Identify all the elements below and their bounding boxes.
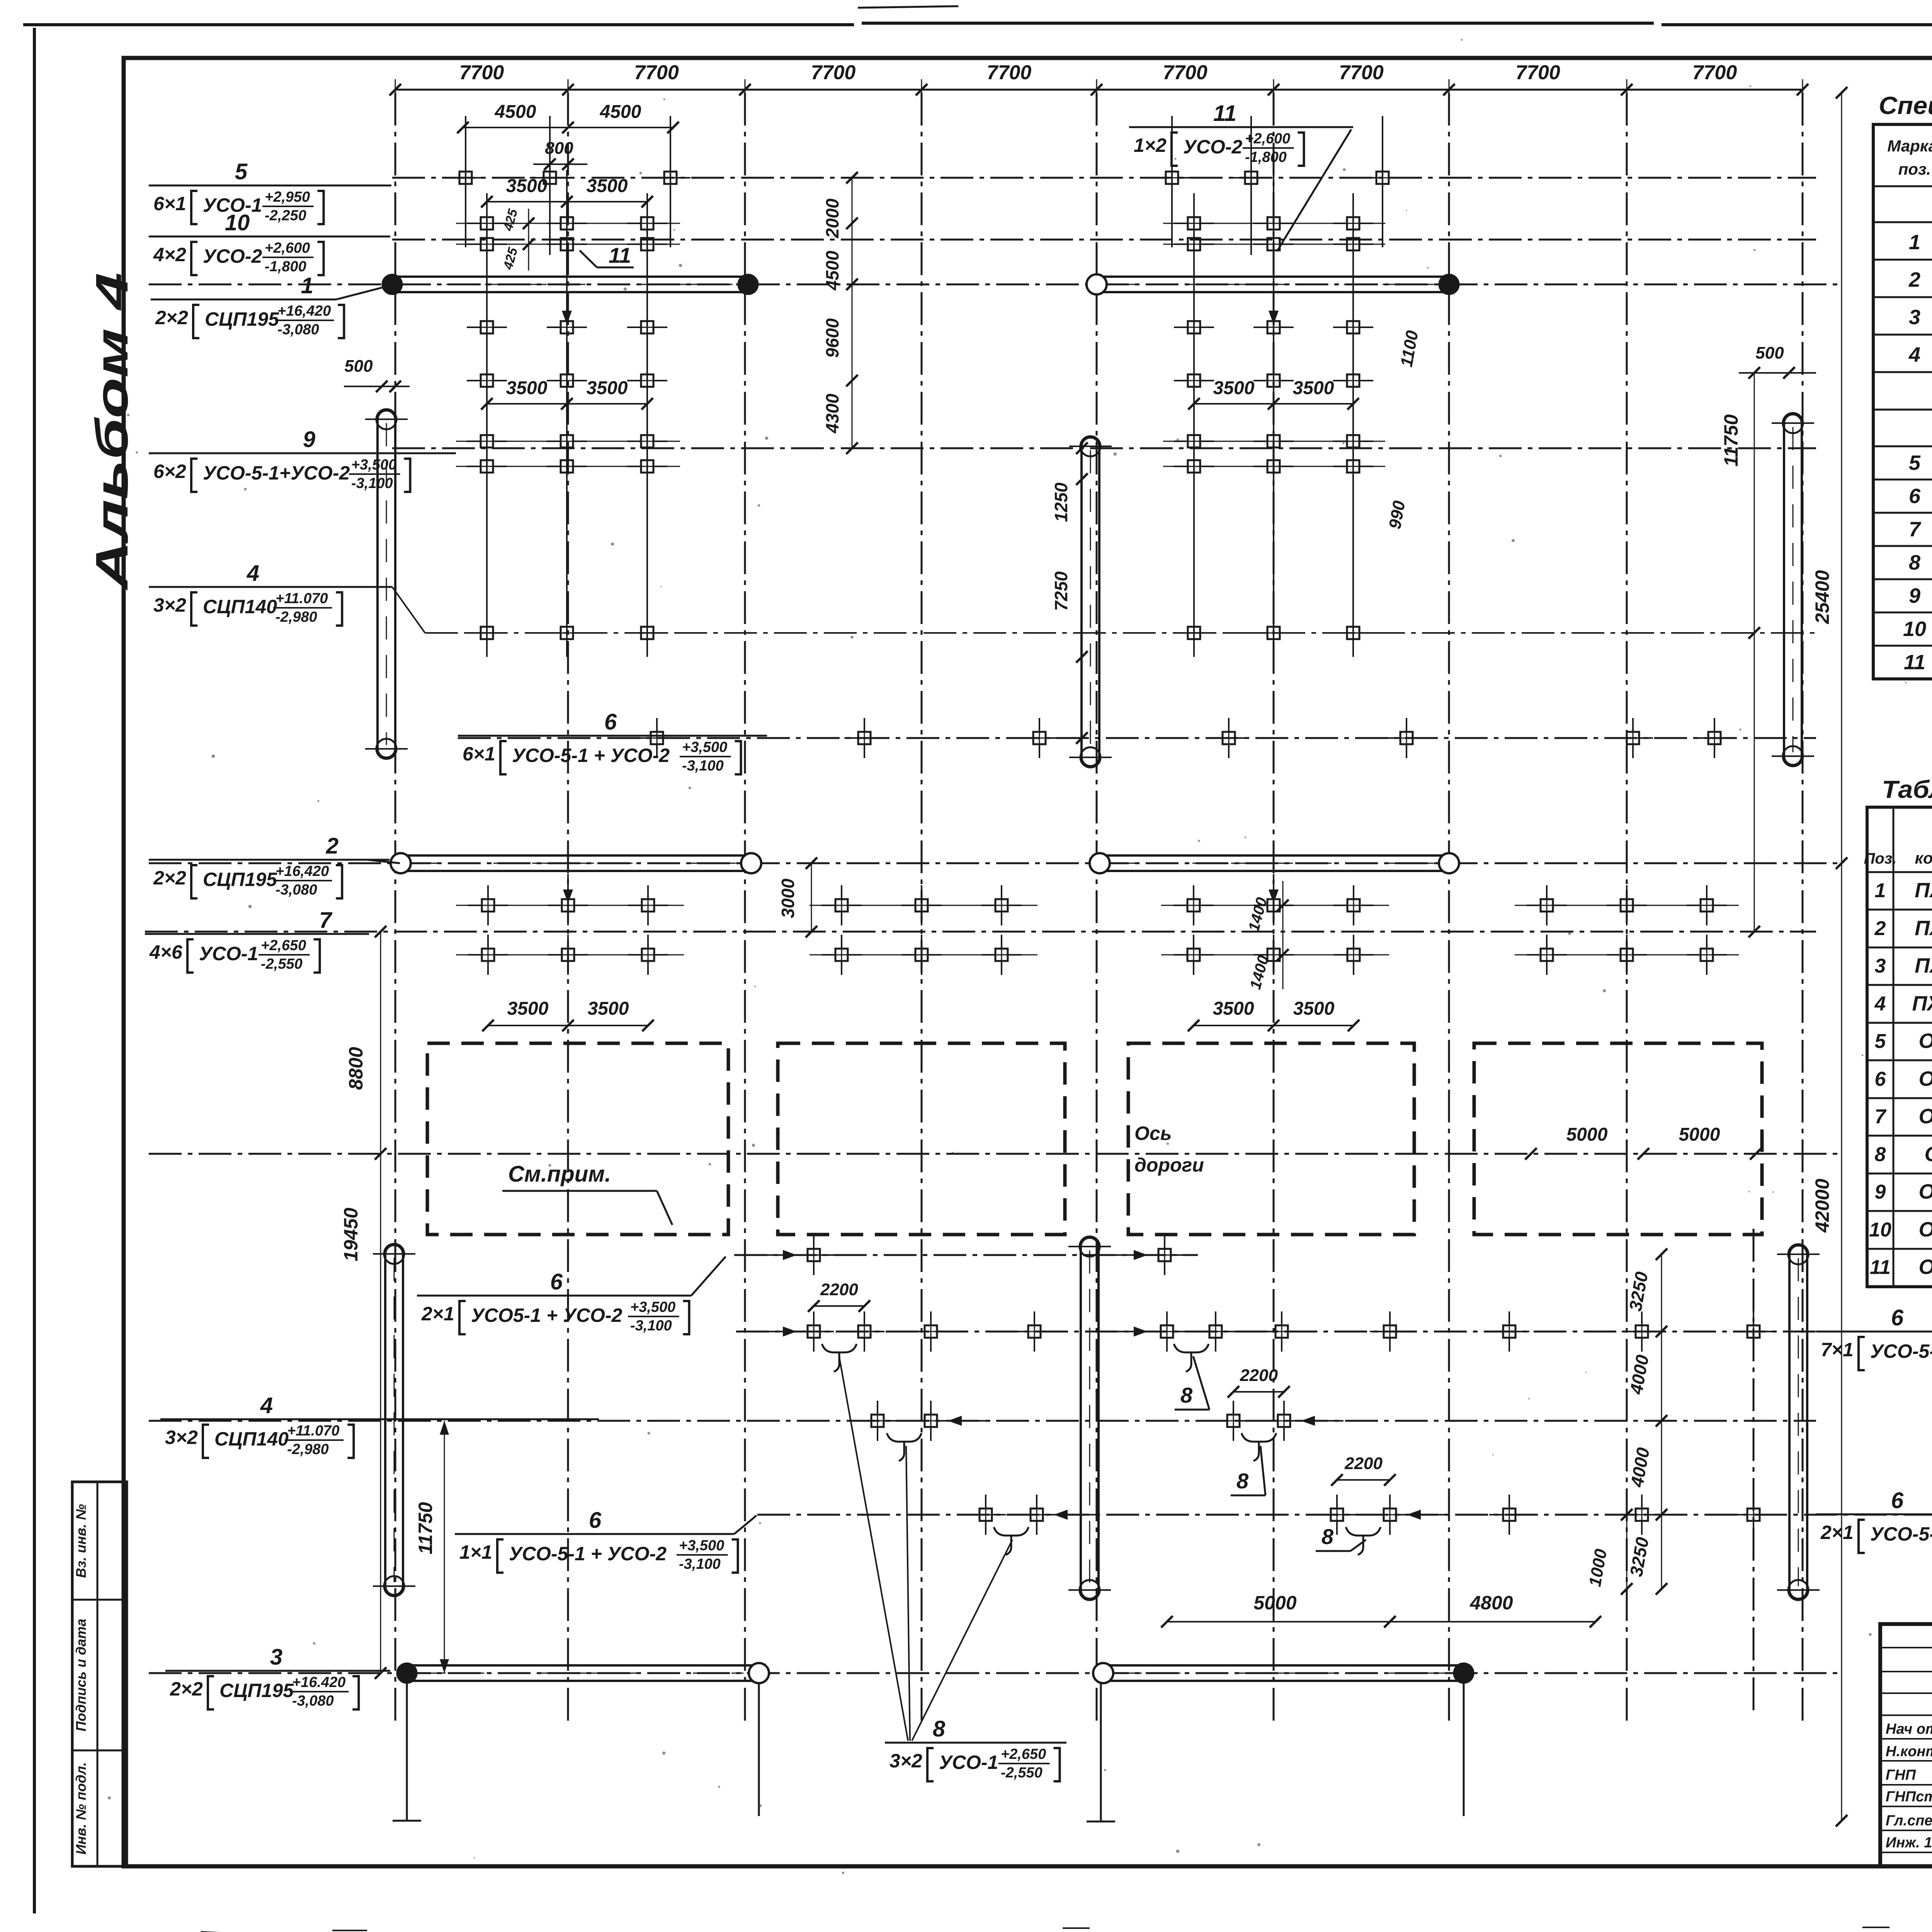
svg-text:6: 6 bbox=[1891, 1305, 1904, 1330]
svg-text:10: 10 bbox=[225, 210, 250, 235]
svg-text:10: 10 bbox=[1903, 617, 1926, 641]
svg-text:3500: 3500 bbox=[506, 176, 548, 196]
svg-text:2: 2 bbox=[1874, 917, 1886, 940]
svg-text:11: 11 bbox=[1904, 651, 1925, 674]
svg-text:3000: 3000 bbox=[778, 878, 798, 918]
svg-text:42000: 42000 bbox=[1811, 1179, 1833, 1233]
row 3677 arrows bbox=[948, 1416, 962, 1426]
row 6b-right axis bbox=[736, 1331, 1932, 1333]
svg-text:8: 8 bbox=[1909, 551, 1920, 574]
svg-text:ГНП: ГНП bbox=[1886, 1767, 1916, 1783]
svg-text:9: 9 bbox=[1909, 584, 1920, 607]
svg-text:поз.: поз. bbox=[1898, 160, 1931, 178]
svg-text:конструкций: конструкций bbox=[1915, 849, 1932, 867]
row 10 axis bbox=[392, 239, 1816, 241]
svg-text:Нач отд: Нач отд bbox=[1886, 1721, 1932, 1737]
svg-text:УСО-2: УСО-2 bbox=[1183, 136, 1243, 158]
svg-text:ПЖ-220 Я3: ПЖ-220 Я3 bbox=[1915, 879, 1932, 902]
svg-text:2200: 2200 bbox=[1240, 1366, 1278, 1385]
axis 7 lower tail bbox=[1463, 1673, 1465, 1816]
svg-text:8: 8 bbox=[1180, 1383, 1193, 1407]
label row6b-right bbox=[1816, 1331, 1932, 1333]
svg-text:ОТ-220-17: ОТ-220-17 bbox=[1918, 1218, 1932, 1241]
svg-text:7250: 7250 bbox=[1051, 571, 1071, 611]
svg-text:ПЖ-220 Я1: ПЖ-220 Я1 bbox=[1915, 917, 1932, 940]
axis 1 lower tail bbox=[406, 1673, 408, 1821]
left margin table bbox=[72, 1482, 127, 1866]
svg-text:7: 7 bbox=[319, 908, 333, 933]
table2 grid bbox=[1867, 807, 1932, 1287]
top dimension chain 7700 bbox=[395, 89, 1803, 91]
chain lower right bbox=[1661, 1254, 1662, 1589]
title block frame bbox=[1880, 1624, 1932, 1866]
row 2 axis bbox=[149, 862, 1842, 864]
axis expansion column bbox=[1753, 1229, 1755, 1712]
label row7 bbox=[145, 933, 369, 935]
svg-text:+2,950: +2,950 bbox=[265, 189, 310, 205]
label row2 leader bbox=[367, 860, 400, 863]
svg-text:СЦП195: СЦП195 bbox=[203, 869, 277, 890]
svg-text:5000: 5000 bbox=[1566, 1124, 1608, 1145]
svg-text:7700: 7700 bbox=[459, 61, 504, 84]
dimension 3500 3500 upper-left bbox=[487, 201, 647, 202]
svg-text:ГНПстр.: ГНПстр. bbox=[1886, 1789, 1932, 1805]
svg-text:4500: 4500 bbox=[495, 102, 536, 122]
svg-text:УСО-5-1+УСО-2: УСО-5-1+УСО-2 bbox=[1870, 1523, 1932, 1545]
row 6c axis bbox=[757, 1514, 1932, 1516]
label 11 top bbox=[1129, 126, 1353, 128]
svg-text:7×1: 7×1 bbox=[1821, 1339, 1854, 1361]
label row1 leader bbox=[336, 285, 391, 299]
axis 5 lower tail bbox=[1100, 1673, 1102, 1821]
svg-text:-3,080: -3,080 bbox=[277, 321, 319, 338]
svg-text:ПЖ-220 Я2: ПЖ-220 Я2 bbox=[1915, 954, 1932, 977]
svg-text:5: 5 bbox=[235, 159, 248, 184]
svg-text:Инж. 1к.: Инж. 1к. bbox=[1886, 1835, 1932, 1851]
dimension 3500 3500 row7-right bbox=[1194, 1025, 1354, 1026]
svg-text:5: 5 bbox=[1875, 1030, 1886, 1053]
svg-text:9: 9 bbox=[1875, 1181, 1886, 1203]
label row5 bbox=[149, 185, 391, 187]
svg-text:+2,650: +2,650 bbox=[261, 937, 306, 954]
label row4 upper bbox=[149, 586, 392, 588]
chain A line bbox=[852, 178, 853, 448]
svg-text:3500: 3500 bbox=[1213, 378, 1255, 398]
svg-text:-3,100: -3,100 bbox=[682, 758, 724, 774]
svg-text:-1,800: -1,800 bbox=[1245, 149, 1287, 165]
dimension 425 425 bbox=[528, 209, 529, 270]
marker columns left bbox=[486, 193, 488, 657]
svg-text:8: 8 bbox=[1875, 1143, 1886, 1166]
svg-text:3500: 3500 bbox=[1293, 378, 1334, 398]
svg-text:Ось: Ось bbox=[1134, 1122, 1172, 1144]
svg-text:4: 4 bbox=[1908, 343, 1920, 366]
portal column lower-mid bbox=[1081, 1238, 1099, 1599]
svg-text:ОТ-220-12: ОТ-220-12 bbox=[1918, 1105, 1932, 1128]
svg-text:3×2: 3×2 bbox=[153, 594, 186, 616]
dimension 5000 5000 road bbox=[1525, 1148, 1537, 1160]
row 9 axis bbox=[392, 447, 1816, 449]
svg-text:3500: 3500 bbox=[587, 176, 628, 196]
label row9 bbox=[149, 452, 456, 454]
svg-text:800: 800 bbox=[545, 139, 573, 158]
svg-text:Таблица закреплений конструкци: Таблица закреплений конструкций в грунте bbox=[1882, 776, 1932, 803]
svg-text:+2,650: +2,650 bbox=[1001, 1746, 1046, 1762]
page top border line bbox=[23, 23, 854, 26]
bracket row3920 b bbox=[1346, 1527, 1381, 1555]
svg-text:-2,250: -2,250 bbox=[265, 207, 306, 224]
svg-text:+3,500: +3,500 bbox=[682, 739, 727, 755]
axis column line 6 bbox=[1273, 93, 1275, 1723]
svg-text:6: 6 bbox=[550, 1269, 563, 1294]
chain left 19450 bbox=[380, 1154, 381, 1673]
svg-text:3: 3 bbox=[270, 1645, 282, 1670]
svg-text:+16.420: +16.420 bbox=[292, 1674, 345, 1690]
svg-text:СЦП195: СЦП195 bbox=[205, 308, 279, 330]
label row3 bbox=[165, 1670, 390, 1672]
svg-text:25400: 25400 bbox=[1811, 570, 1833, 624]
svg-text:2200: 2200 bbox=[1344, 1454, 1383, 1473]
svg-text:7700: 7700 bbox=[1692, 61, 1737, 84]
svg-text:8: 8 bbox=[1321, 1524, 1334, 1549]
svg-text:Марка,: Марка, bbox=[1887, 137, 1932, 155]
svg-text:+2,600: +2,600 bbox=[265, 240, 310, 256]
dimension 3500 3500 row7-left bbox=[488, 1025, 648, 1026]
svg-text:-3,080: -3,080 bbox=[276, 882, 317, 898]
svg-text:1×1: 1×1 bbox=[459, 1541, 492, 1563]
svg-text:ОТ-220-18: ОТ-220-18 bbox=[1918, 1255, 1932, 1279]
row 4 axis lower bbox=[149, 1420, 1816, 1422]
svg-text:2: 2 bbox=[326, 833, 338, 859]
foundation markers bbox=[446, 158, 486, 198]
axis 3 lower tail bbox=[758, 1673, 760, 1816]
dimension 500 right bbox=[1739, 372, 1816, 374]
svg-text:Инв. № подл.: Инв. № подл. bbox=[73, 1762, 89, 1854]
label row2 bbox=[149, 859, 389, 861]
svg-text:10: 10 bbox=[1869, 1219, 1891, 1241]
axis column line 1 bbox=[395, 93, 396, 1723]
dashed area 3 bbox=[1128, 1043, 1414, 1235]
portal column upper-mid bbox=[1082, 437, 1099, 766]
svg-text:Спецификация к схеме расположе: Спецификация к схеме расположения элемен… bbox=[1879, 92, 1932, 119]
row 4 axis upper bbox=[425, 632, 1816, 634]
svg-text:6×1: 6×1 bbox=[463, 743, 495, 765]
svg-text:3: 3 bbox=[1909, 306, 1920, 329]
svg-text:+11.070: +11.070 bbox=[276, 590, 328, 607]
svg-text:УСО-2: УСО-2 bbox=[203, 245, 262, 267]
row 1 axis bbox=[149, 284, 1842, 286]
svg-text:4500: 4500 bbox=[600, 102, 641, 122]
svg-text:+3,500: +3,500 bbox=[630, 1299, 675, 1315]
svg-text:5000: 5000 bbox=[1679, 1124, 1720, 1145]
svg-text:4800: 4800 bbox=[1469, 1592, 1513, 1614]
axis column line 8 bbox=[1626, 93, 1628, 1723]
svg-text:1250: 1250 bbox=[1051, 482, 1071, 522]
svg-text:7700: 7700 bbox=[634, 61, 679, 84]
svg-text:ОТ-220-25: ОТ-220-25 bbox=[1918, 1067, 1932, 1090]
svg-text:СЦП140: СЦП140 bbox=[203, 596, 277, 617]
row 5 axis bbox=[392, 177, 1816, 179]
portal column upper-left bbox=[378, 410, 395, 758]
svg-text:-3,100: -3,100 bbox=[679, 1556, 721, 1572]
svg-text:ОТ-220-27: ОТ-220-27 bbox=[1918, 1029, 1932, 1053]
svg-text:УСО-5-1 + УСО-2: УСО-5-1 + УСО-2 bbox=[512, 745, 670, 766]
label 8 leaders bbox=[839, 1357, 908, 1741]
svg-text:5: 5 bbox=[1909, 451, 1921, 474]
svg-text:УСО5-1 + УСО-2: УСО5-1 + УСО-2 bbox=[471, 1304, 622, 1326]
bracket row3446 b bbox=[1174, 1344, 1209, 1372]
row 3 axis bbox=[149, 1672, 1842, 1674]
svg-text:4: 4 bbox=[260, 1393, 273, 1418]
svg-text:+16,420: +16,420 bbox=[276, 863, 329, 879]
row 10 marker lines bbox=[456, 223, 680, 224]
portal bar row3 left bbox=[407, 1664, 759, 1667]
svg-text:6×1: 6×1 bbox=[153, 193, 186, 214]
svg-text:4: 4 bbox=[247, 561, 259, 586]
svg-text:5000: 5000 bbox=[1253, 1592, 1296, 1614]
svg-text:8: 8 bbox=[1236, 1469, 1249, 1493]
svg-text:дороги: дороги bbox=[1134, 1154, 1204, 1176]
row 3920 arrows bbox=[1054, 1510, 1068, 1520]
svg-text:Поз.: Поз. bbox=[1864, 850, 1897, 867]
row 7 marker lines bbox=[456, 905, 684, 906]
bracket row3920 a bbox=[994, 1527, 1029, 1555]
svg-text:2000: 2000 bbox=[822, 198, 842, 238]
svg-text:9: 9 bbox=[303, 427, 315, 452]
portal column lower-left bbox=[385, 1245, 403, 1595]
dimension 5000 4800 bbox=[1167, 1621, 1595, 1622]
svg-text:2: 2 bbox=[1908, 268, 1920, 291]
label row6c-left bbox=[455, 1533, 734, 1535]
svg-text:500: 500 bbox=[1755, 344, 1784, 362]
dashed area 1 bbox=[427, 1043, 728, 1235]
axis column line 3 bbox=[744, 93, 746, 1723]
label row6b-left bbox=[417, 1295, 691, 1297]
svg-text:1: 1 bbox=[301, 273, 313, 298]
spec table grid bbox=[1873, 124, 1932, 679]
svg-text:7700: 7700 bbox=[811, 61, 856, 84]
svg-text:-3,080: -3,080 bbox=[292, 1693, 334, 1709]
marker columns top-left bbox=[465, 116, 466, 247]
svg-text:Гл.спец.: Гл.спец. bbox=[1886, 1813, 1932, 1829]
svg-text:3500: 3500 bbox=[506, 378, 548, 398]
svg-text:6: 6 bbox=[604, 709, 617, 735]
dimension 4500 4500 left bbox=[463, 127, 673, 128]
svg-text:ОТ-220-15: ОТ-220-15 bbox=[1918, 1180, 1932, 1203]
axis column line 9 bbox=[1802, 93, 1804, 1723]
dashed area 2 bbox=[778, 1043, 1065, 1235]
svg-text:4×6: 4×6 bbox=[149, 941, 183, 963]
dimension 800 bbox=[533, 163, 587, 165]
svg-text:6: 6 bbox=[1891, 1488, 1904, 1513]
svg-text:3500: 3500 bbox=[1213, 998, 1254, 1019]
svg-text:500: 500 bbox=[344, 357, 373, 376]
portal column upper-right bbox=[1784, 414, 1802, 765]
svg-text:7700: 7700 bbox=[1163, 61, 1207, 84]
svg-text:19450: 19450 bbox=[340, 1207, 362, 1261]
svg-text:СЦП195: СЦП195 bbox=[219, 1680, 294, 1701]
svg-text:11750: 11750 bbox=[415, 1502, 436, 1554]
label row10 bbox=[149, 236, 390, 238]
portal bar row2 left bbox=[401, 854, 751, 857]
svg-text:1: 1 bbox=[1875, 879, 1886, 902]
svg-text:11: 11 bbox=[1870, 1256, 1891, 1279]
svg-text:2×2: 2×2 bbox=[155, 307, 188, 328]
svg-text:+16,420: +16,420 bbox=[277, 303, 331, 319]
bracket row3677 a bbox=[887, 1433, 922, 1461]
svg-text:9600: 9600 bbox=[822, 318, 842, 358]
svg-text:7700: 7700 bbox=[1339, 61, 1384, 84]
svg-text:Вз. инв. №: Вз. инв. № bbox=[73, 1504, 89, 1578]
label 8 bottom bbox=[885, 1742, 1066, 1744]
chain B line bbox=[1082, 448, 1083, 738]
svg-text:+3,500: +3,500 bbox=[351, 457, 396, 473]
svg-text:7700: 7700 bbox=[987, 61, 1032, 84]
svg-text:УСО-5-1+УСО-2: УСО-5-1+УСО-2 bbox=[203, 462, 350, 484]
label row6c-right bbox=[1816, 1514, 1932, 1515]
row 7 axis bbox=[145, 931, 1816, 933]
dimension 3500 3500 row9-right bbox=[1194, 403, 1353, 405]
svg-text:8: 8 bbox=[933, 1716, 946, 1742]
portal column lower-right bbox=[1789, 1245, 1807, 1599]
axis column line 2 bbox=[567, 93, 569, 1723]
svg-text:6: 6 bbox=[589, 1508, 602, 1533]
bracket row3677 b bbox=[1242, 1433, 1276, 1461]
svg-text:2×1: 2×1 bbox=[1820, 1522, 1854, 1543]
row 9 marker lines bbox=[456, 441, 680, 442]
svg-text:8800: 8800 bbox=[345, 1047, 367, 1090]
svg-text:+3,500: +3,500 bbox=[679, 1537, 724, 1554]
svg-text:6: 6 bbox=[1875, 1068, 1886, 1090]
label row6b jog bbox=[691, 1257, 726, 1296]
svg-text:3500: 3500 bbox=[507, 998, 549, 1019]
svg-text:ПЖ-220 Ш1: ПЖ-220 Ш1 bbox=[1912, 992, 1932, 1015]
dimension 2200 c bbox=[1337, 1479, 1390, 1481]
portal bar row1 right bbox=[1097, 276, 1449, 278]
svg-text:2×1: 2×1 bbox=[421, 1303, 454, 1325]
svg-text:-2,980: -2,980 bbox=[287, 1441, 329, 1458]
svg-text:УСО-1: УСО-1 bbox=[939, 1752, 998, 1773]
svg-text:6: 6 bbox=[1909, 485, 1921, 508]
chain right 25400 bbox=[1841, 93, 1842, 1821]
svg-text:4300: 4300 bbox=[822, 393, 842, 434]
svg-text:-2,550: -2,550 bbox=[1001, 1765, 1043, 1781]
chain left 8800 bbox=[380, 932, 381, 1154]
svg-text:6×2: 6×2 bbox=[153, 461, 186, 482]
dimension 500 left bbox=[344, 386, 410, 387]
svg-text:7: 7 bbox=[1909, 518, 1922, 541]
portal bar row1 left bbox=[392, 276, 748, 278]
marker columns right bbox=[1193, 193, 1195, 657]
svg-text:Альбом 4: Альбом 4 bbox=[87, 272, 138, 591]
svg-text:3500: 3500 bbox=[587, 378, 628, 398]
chain left 11750 bbox=[444, 1421, 445, 1673]
bracket row3446 a bbox=[822, 1344, 857, 1372]
svg-text:7700: 7700 bbox=[1515, 61, 1560, 84]
svg-text:+11.070: +11.070 bbox=[287, 1423, 340, 1439]
svg-text:См.прим.: См.прим. bbox=[508, 1162, 611, 1187]
svg-text:3×2: 3×2 bbox=[165, 1427, 198, 1448]
svg-text:2200: 2200 bbox=[820, 1280, 858, 1299]
svg-text:1: 1 bbox=[1909, 231, 1920, 254]
page left border line bbox=[33, 28, 36, 1913]
label 11 top leader bbox=[1277, 129, 1351, 251]
svg-text:Подпись и дата: Подпись и дата bbox=[73, 1619, 89, 1731]
svg-text:-3,100: -3,100 bbox=[630, 1318, 672, 1334]
scan speckles bbox=[1750, 85, 1752, 87]
road axis bbox=[149, 1153, 1842, 1155]
row 6a axis bbox=[458, 737, 1816, 739]
arrow marks bbox=[562, 311, 572, 325]
svg-text:11750: 11750 bbox=[1720, 414, 1742, 467]
row 3446 arrows bbox=[783, 1327, 797, 1337]
svg-text:+2,600: +2,600 bbox=[1245, 131, 1290, 147]
svg-text:-2,550: -2,550 bbox=[261, 956, 303, 972]
svg-text:11: 11 bbox=[1213, 101, 1236, 126]
dashed area 4 bbox=[1474, 1043, 1762, 1235]
dimension 2200 a bbox=[814, 1305, 864, 1307]
portal bar row3 right bbox=[1103, 1664, 1464, 1667]
svg-text:4×2: 4×2 bbox=[153, 244, 186, 265]
row 6b-left axis bbox=[734, 1254, 1198, 1256]
svg-text:УСО-5-1+УСО-2: УСО-5-1+УСО-2 bbox=[1870, 1340, 1932, 1362]
svg-text:2×2: 2×2 bbox=[170, 1678, 203, 1700]
svg-text:3: 3 bbox=[1875, 955, 1886, 977]
dimension 3500 3500 row9-left bbox=[487, 403, 647, 405]
svg-text:УСО-1: УСО-1 bbox=[199, 943, 258, 964]
svg-text:-1,800: -1,800 bbox=[265, 259, 306, 275]
svg-text:2×2: 2×2 bbox=[153, 867, 186, 889]
portal bar row2 right bbox=[1100, 854, 1449, 857]
svg-text:-2,980: -2,980 bbox=[276, 609, 317, 625]
label row6c jog bbox=[734, 1515, 757, 1534]
svg-text:1×2: 1×2 bbox=[1134, 134, 1167, 156]
dimension 2200 b bbox=[1233, 1391, 1284, 1393]
svg-text:СЦП140: СЦП140 bbox=[214, 1428, 289, 1450]
svg-text:3500: 3500 bbox=[588, 998, 629, 1019]
row 3248 arrows bbox=[783, 1250, 797, 1260]
axis column line 4 bbox=[921, 93, 923, 1723]
label row1 bbox=[151, 299, 336, 301]
axis column line 5 bbox=[1096, 93, 1098, 1723]
axis column line 7 bbox=[1448, 93, 1450, 1723]
svg-text:7: 7 bbox=[1875, 1105, 1887, 1128]
svg-text:3×2: 3×2 bbox=[889, 1750, 922, 1772]
marker columns top-right bbox=[1171, 116, 1173, 247]
label row4 lower bbox=[160, 1418, 599, 1420]
svg-text:11: 11 bbox=[609, 243, 631, 267]
label row6a bbox=[458, 735, 767, 737]
svg-text:-3,100: -3,100 bbox=[351, 475, 393, 492]
svg-text:ОТ-220-9: ОТ-220-9 bbox=[1924, 1143, 1932, 1166]
svg-text:Н.контр: Н.контр bbox=[1886, 1743, 1932, 1760]
svg-text:4: 4 bbox=[1874, 993, 1886, 1015]
chain right 11750 bbox=[1754, 373, 1755, 932]
svg-text:УСО-5-1 + УСО-2: УСО-5-1 + УСО-2 bbox=[509, 1543, 667, 1565]
svg-text:3500: 3500 bbox=[1293, 998, 1335, 1019]
svg-text:4500: 4500 bbox=[822, 250, 842, 291]
